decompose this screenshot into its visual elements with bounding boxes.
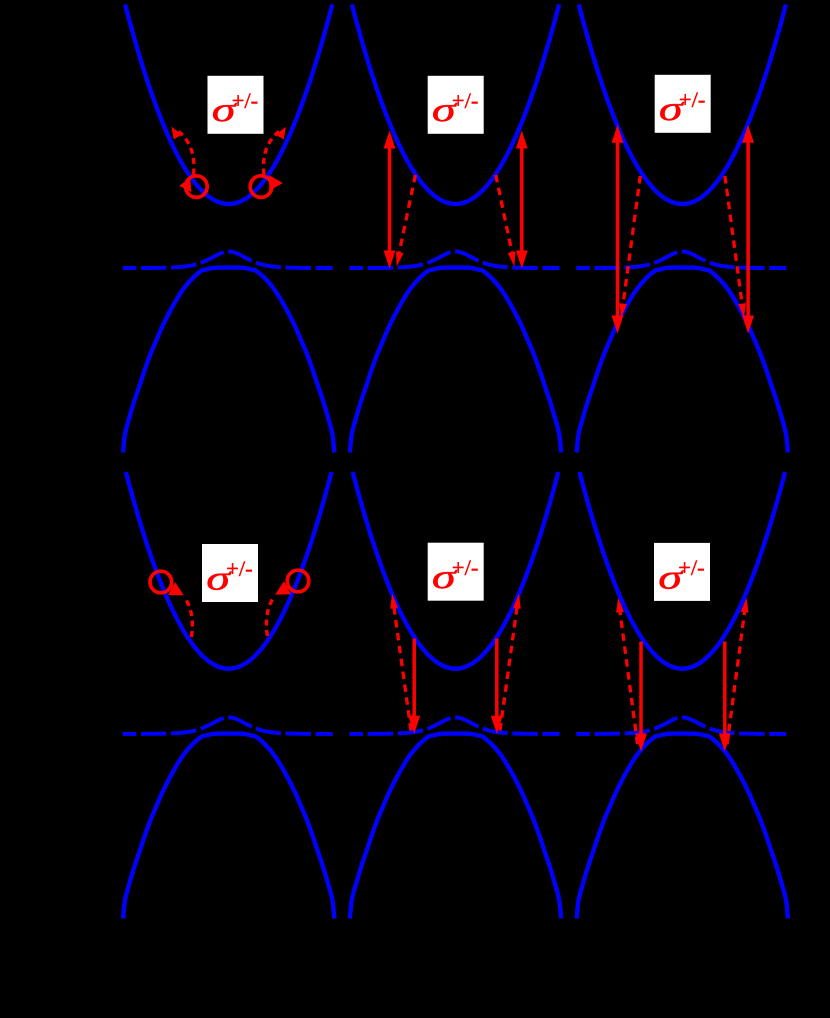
dashed arrow left panel 5 <box>394 604 412 731</box>
heavy valence band panel 2 <box>350 268 561 453</box>
sigma+/- label panel 2 <box>428 76 484 134</box>
vertical transition arrow left panel 3 <box>616 141 620 318</box>
electron circle right panel 1 <box>250 176 272 198</box>
vertical transition arrow right panel 2 <box>520 147 524 253</box>
svg-text:+/-: +/- <box>452 88 478 113</box>
sigma+/- label panel 4 <box>202 544 258 602</box>
dashed relaxation arrow left panel 3 <box>623 176 641 306</box>
conduction band parabola panel 1 <box>125 4 332 204</box>
flat valence band with bump panel 2 (dashed) <box>350 252 560 269</box>
rotation arrowhead right circle panel 1 <box>269 175 283 191</box>
svg-text:+/-: +/- <box>452 555 478 580</box>
vertical emission arrow right panel 5 <box>495 639 499 718</box>
curved dashed excitation arrow left panel 1 <box>179 132 194 175</box>
rotation arrowhead right circle panel 4 <box>275 581 291 594</box>
conduction band parabola panel 6 <box>580 472 786 669</box>
vertical transition arrow right panel 3 <box>746 141 750 318</box>
heavy valence band panel 1 <box>123 268 334 453</box>
sigma+/- label panel 5 <box>428 543 484 601</box>
curved dashed relaxation arrow right panel 4 <box>266 600 272 640</box>
heavy valence band panel 4 <box>123 734 334 919</box>
heavy valence band panel 6 <box>577 734 788 919</box>
svg-text:+/-: +/- <box>226 556 252 581</box>
sigma+/- label panel 6 <box>654 543 710 601</box>
curved dashed relaxation arrow left panel 4 <box>187 601 193 641</box>
dashed relaxation arrow right panel 2 <box>496 175 513 256</box>
rotation arrowhead left circle panel 1 <box>179 178 191 192</box>
vertical emission arrow right panel 6 <box>723 642 727 736</box>
electron circle left panel 1 <box>186 176 208 198</box>
conduction band parabola panel 5 <box>353 472 559 669</box>
svg-text:+/-: +/- <box>678 555 704 580</box>
flat valence band with bump panel 6 (dashed) <box>576 717 786 734</box>
vertical transition arrow left panel 2 <box>388 147 392 253</box>
dashed relaxation arrow left panel 2 <box>399 175 416 256</box>
flat valence band with bump panel 1 (dashed) <box>123 252 333 269</box>
svg-text:+/-: +/- <box>232 88 258 113</box>
sigma+/- label panel 1 <box>208 76 264 134</box>
flat valence band with bump panel 5 (dashed) <box>350 717 560 734</box>
dashed arrow left panel 6 <box>620 608 638 744</box>
heavy valence band panel 5 <box>350 734 561 919</box>
electron circle left panel 4 <box>150 571 172 593</box>
vertical emission arrow left panel 6 <box>639 642 643 736</box>
dashed arrow right panel 6 <box>727 608 745 744</box>
flat valence band with bump panel 3 (dashed) <box>576 252 786 269</box>
conduction band parabola panel 4 <box>126 472 332 669</box>
conduction band parabola panel 2 <box>352 4 559 204</box>
heavy valence band panel 3 <box>577 268 788 453</box>
vertical emission arrow left panel 5 <box>412 639 416 718</box>
svg-text:+/-: +/- <box>679 87 705 112</box>
electron circle right panel 4 <box>287 570 309 592</box>
rotation arrowhead left circle panel 4 <box>168 582 184 595</box>
sigma+/- label panel 3 <box>655 75 711 133</box>
flat valence band with bump panel 4 (dashed) <box>123 717 333 734</box>
dashed arrow right panel 5 <box>500 604 518 731</box>
conduction band parabola panel 3 <box>579 4 786 204</box>
dashed relaxation arrow right panel 3 <box>725 176 743 306</box>
curved dashed excitation arrow right panel 1 <box>263 132 278 175</box>
